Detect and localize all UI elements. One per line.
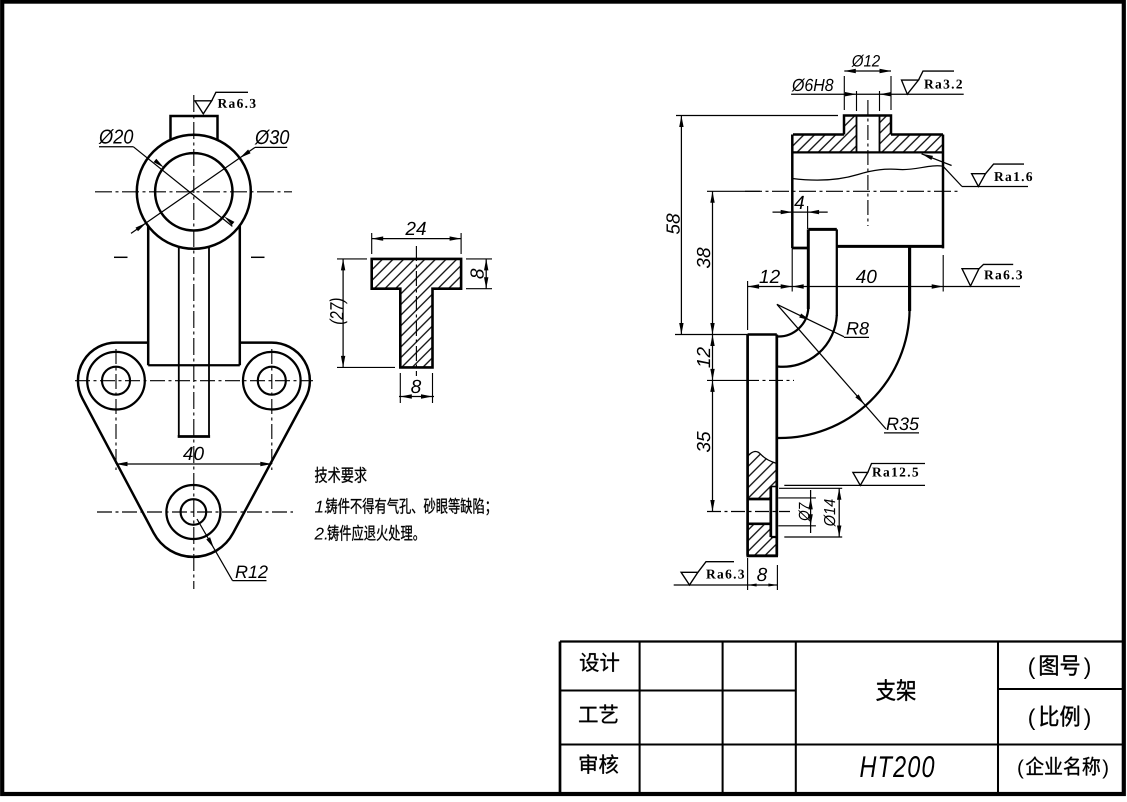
dimension 4 line [773,211,828,213]
dimension 8 (plate thickness) line [748,584,778,586]
dimension Ø12 extension lines [843,76,845,110]
side view: body horizontal centerline [745,190,958,192]
side view: plate right edge [775,335,778,556]
title block text (企业名称) [1018,759,1023,778]
dimension Ø6H8 line [791,93,964,95]
surface finish Ra6.3 (plate bottom) symbol [681,572,698,585]
front view: stem right edge [208,247,210,437]
dimension 24 extension lines [371,233,373,254]
plate hole centerline [707,511,790,513]
side view: body bottom edge right [837,245,943,248]
dimension 8 (flange) extension lines [466,258,492,260]
front view: inner circle Ø20 [155,153,232,230]
front view: vertical centerline [193,95,195,589]
side view: break (wavy) line [792,166,943,180]
side view: plate left edge [746,335,749,556]
dimension 58 line [680,116,682,335]
front view: bolt hole right outer circle [243,352,301,410]
front view: left bolt hole vertical centerline / extension [115,349,117,470]
title block text HT200 [860,756,876,777]
front view: top boss rectangle [171,116,218,140]
title block outer lines [559,642,562,794]
front view: bolt hole right inner circle [258,367,286,395]
dimension 8 (plate thickness) text [757,568,767,581]
side view: counterbore top edge [771,486,777,488]
dimension 40 text [856,270,866,283]
front view: outer circle Ø30 [137,135,251,249]
dimension Ø7 extension lines [778,497,816,499]
front view: stem bottom edge [178,435,210,438]
dimension R12 text [236,566,248,578]
dimension 35 text [697,431,710,452]
title block text 设计 [580,653,599,672]
T-section: outline [372,259,461,368]
title block column line 1 [639,642,641,794]
arm centerline extension [707,379,745,381]
dimension Ø7 text [798,502,809,521]
title block text 支架 [876,679,895,701]
dimension R35 text [887,418,899,430]
dimension Ø14 extension lines [779,487,842,489]
side view: plate top edge [748,333,777,335]
dimension Ø30 leader line [255,146,287,148]
side view: body right edge [942,135,944,249]
side view: boss outline [844,116,891,135]
dimension Ø14 text [824,499,836,526]
front view: bolt hole left inner circle [102,367,130,395]
dimension (27) text [330,299,348,324]
dimension (27) extension lines [337,258,367,260]
title block text 工艺 [579,707,597,722]
side view: rib right edge [836,229,838,316]
dimension 58 text [666,214,679,235]
dimension 24 line [372,238,461,240]
dimension 8 (plate thickness) extension lines [747,558,749,590]
surface finish Ra6.3 (right) text [984,270,994,279]
title block row line 1 right [998,688,1122,690]
dimension 8 (stem) extension lines [399,373,401,403]
surface finish Ra3.2 text [924,80,934,89]
front view: bottom hole horizontal centerline [97,511,293,513]
surface finish Ra6.3 (plate bottom) text [706,570,716,579]
dimension 4 text [794,196,804,209]
side view: rib left edge [807,229,810,309]
side view: boss left wall hatch [844,116,857,135]
surface finish Ra6.3 (boss top) symbol [195,101,212,114]
dimension R8 leader [777,304,844,336]
title block row line 1 left [560,689,796,691]
dimension R12 leader [197,519,233,581]
side view: local section wavy boundary [748,451,777,463]
surface finish Ra1.6 text [994,172,1004,181]
dimension 12/40 shared line with extension [748,286,1020,288]
dimension Ø20 text [99,129,115,144]
extension line x=747.6 above plate [747,281,749,330]
side view: flange top edge left [793,133,844,135]
front view: bolt holes horizontal centerline [75,380,313,382]
side view: counterbore bottom edge [771,536,777,538]
side view: flange hatch right of hole [880,135,944,153]
surface finish Ra6.3 (plate bottom) baseline [674,584,748,586]
title block row line 2 [560,743,1122,745]
dimension 8 (flange) line [485,259,487,289]
dimension R35 leader [777,304,886,429]
front view: horizontal centerline of boss circle [95,191,292,193]
dimension 58 extension line (top) [676,115,838,117]
dimension 38 text [697,248,710,269]
front view: stem left edge [178,247,180,437]
surface finish Ra6.3 (right) symbol [962,269,979,286]
dimension (27) line [342,259,344,368]
T-section: hatched cut face [372,259,461,368]
dimension Ø6H8 text [792,78,806,91]
side view: plate bottom edge [747,554,779,557]
front view: column outer right edge [239,226,241,365]
dimension 8 (stem) text [411,380,421,393]
front view: section-plane dash left [114,256,128,258]
front view: bottom hole inner circle [181,499,207,525]
dimension 35 line [712,380,714,511]
dimension 12 (horizontal) text [759,270,767,283]
front view: section-plane dash right [251,256,265,258]
side view: hole top edge [748,498,771,501]
extension line x=943.2 below body [942,255,944,292]
side view: Ø6 hole left edge [856,116,858,153]
surface finish Ra12.5 baseline [784,484,925,486]
plate top extension line [675,334,748,336]
side view: rib top edge [808,228,837,231]
dimension Ø14 line [838,488,840,537]
side view: flange top edge right [891,133,943,135]
extension line x=792.2 below body [791,248,793,292]
front view: base plate outline (rounded triangle R12) [78,343,310,557]
dimension 8 (stem) line [399,396,434,398]
surface finish Ra12.5 text [872,468,882,477]
front view: right bolt hole vertical centerline / extension [271,349,273,470]
dimension 8 (flange) text [470,269,483,279]
dimension 4 extension line [807,206,809,229]
front view: bottom hole outer circle [166,485,220,539]
title block column line 4 [997,642,999,794]
side view: plate lower hatch [748,524,777,556]
dimension 12 (vertical) text [697,347,710,367]
surface finish Ra1.6 symbol [972,174,986,187]
dimension 24 text [405,222,415,235]
dimension 38 extension line [707,190,760,192]
T-section: vertical centerline [415,246,417,376]
side view: Ø6 hole right edge [879,116,881,153]
title block text 审核 [580,754,597,773]
dimension Ø7 line [810,490,812,533]
technical requirement 2 [314,528,323,540]
technical requirement 1 [315,501,323,513]
title block column line 3 [795,642,797,794]
dimension Ø20 leader line [99,146,133,148]
side view: R8 fillet arc [778,308,809,337]
surface finish Ra3.2 symbol [902,80,919,94]
front view: column foot edge [148,364,240,366]
dimension R8 text [847,322,859,334]
side view: plate upper hatch (local section) [748,451,777,499]
front view: column outer left edge [147,226,149,365]
technical requirements heading [315,467,327,483]
title block text (图号) [1029,658,1035,679]
dimension 40 line [116,463,272,465]
side view: hole bottom edge [748,522,771,525]
title block text (比例) [1029,709,1035,730]
side view: arm outer edge (vertical) [908,246,911,311]
side view: boss right wall hatch [880,116,892,135]
dimension Ø30 text [255,130,271,145]
surface finish Ra12.5 symbol [853,472,868,485]
dimension Ø12 line [844,70,891,72]
side view: arm inner arc [778,315,837,367]
side view: flange hatch left of hole [793,135,857,153]
title block column line 2 [722,642,724,794]
side view: flange bottom edge [793,151,943,153]
dimension 12 (vertical) line [712,335,714,381]
surface finish Ra6.3 (boss top) text [218,99,228,108]
dimension Ø12 text [851,55,864,67]
dimension 40 text [183,447,193,460]
side view: R35 arm outer arc [778,310,910,438]
dimension Ø6H8 extension lines [856,91,858,111]
side view: body bottom step left [792,247,807,250]
side view: counterbore face line [769,487,772,538]
side view: body left edge [791,135,793,249]
surface finish Ra1.6 leader [922,154,952,166]
dimension 38 line [712,191,714,334]
front view: bolt hole left outer circle [87,352,145,410]
side view: boss hole vertical centerline [867,100,869,226]
